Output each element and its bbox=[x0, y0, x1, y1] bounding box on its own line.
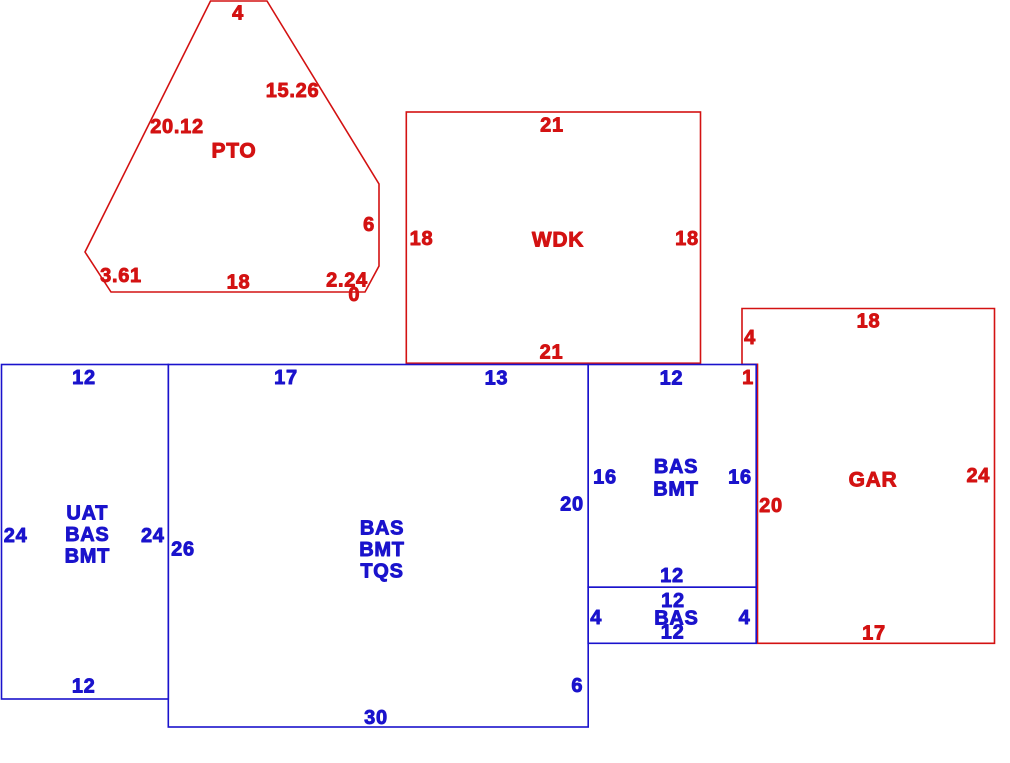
svg-text:PTO: PTO bbox=[212, 140, 257, 163]
svg-text:GAR: GAR bbox=[849, 469, 898, 492]
svg-text:2.24: 2.24 bbox=[326, 270, 368, 292]
GAR garage polygon bbox=[742, 309, 995, 644]
UAT BAS BMT left rectangle bbox=[2, 365, 169, 700]
svg-text:WDK: WDK bbox=[532, 229, 584, 252]
svg-text:6: 6 bbox=[571, 675, 583, 697]
svg-text:18: 18 bbox=[675, 228, 699, 250]
svg-text:BMT: BMT bbox=[65, 546, 110, 568]
svg-text:4: 4 bbox=[590, 607, 602, 629]
svg-text:0: 0 bbox=[348, 284, 360, 306]
svg-text:4: 4 bbox=[739, 607, 751, 629]
svg-text:20.12: 20.12 bbox=[150, 116, 204, 138]
svg-text:BAS: BAS bbox=[65, 524, 109, 546]
svg-text:16: 16 bbox=[593, 466, 617, 488]
svg-text:12: 12 bbox=[72, 675, 96, 697]
svg-text:24: 24 bbox=[4, 525, 28, 547]
svg-text:18: 18 bbox=[227, 272, 251, 294]
svg-text:18: 18 bbox=[410, 228, 434, 250]
svg-text:6: 6 bbox=[363, 214, 375, 236]
svg-text:4: 4 bbox=[232, 3, 244, 25]
svg-text:17: 17 bbox=[862, 622, 886, 644]
svg-text:13: 13 bbox=[485, 367, 509, 389]
BAS BMT TQS main rectangle bbox=[168, 365, 588, 728]
svg-text:16: 16 bbox=[728, 466, 752, 488]
svg-text:12: 12 bbox=[72, 367, 96, 389]
svg-text:BAS: BAS bbox=[654, 456, 698, 478]
svg-text:21: 21 bbox=[540, 114, 564, 136]
svg-text:20: 20 bbox=[560, 494, 584, 516]
svg-text:UAT: UAT bbox=[66, 503, 108, 525]
svg-text:BMT: BMT bbox=[359, 539, 404, 561]
svg-text:TQS: TQS bbox=[360, 561, 403, 583]
svg-text:12: 12 bbox=[660, 367, 684, 389]
svg-text:17: 17 bbox=[274, 367, 298, 389]
svg-text:30: 30 bbox=[364, 707, 388, 729]
svg-text:24: 24 bbox=[141, 525, 165, 547]
svg-text:21: 21 bbox=[540, 341, 564, 363]
svg-text:3.61: 3.61 bbox=[100, 265, 142, 287]
svg-text:BAS: BAS bbox=[360, 518, 404, 540]
svg-text:24: 24 bbox=[966, 465, 990, 487]
svg-text:26: 26 bbox=[171, 539, 195, 561]
BAS BMT right rectangle bbox=[588, 365, 756, 588]
PTO patio polygon bbox=[85, 1, 379, 292]
svg-text:12: 12 bbox=[661, 622, 685, 644]
svg-text:20: 20 bbox=[759, 495, 783, 517]
svg-text:12: 12 bbox=[660, 565, 684, 587]
svg-text:4: 4 bbox=[744, 327, 756, 349]
WDK wood deck rectangle bbox=[406, 112, 700, 363]
svg-text:BMT: BMT bbox=[653, 479, 698, 501]
svg-text:15.26: 15.26 bbox=[266, 80, 320, 102]
svg-text:18: 18 bbox=[857, 311, 881, 333]
svg-text:1: 1 bbox=[742, 367, 754, 389]
BAS strip rectangle bbox=[588, 587, 756, 643]
